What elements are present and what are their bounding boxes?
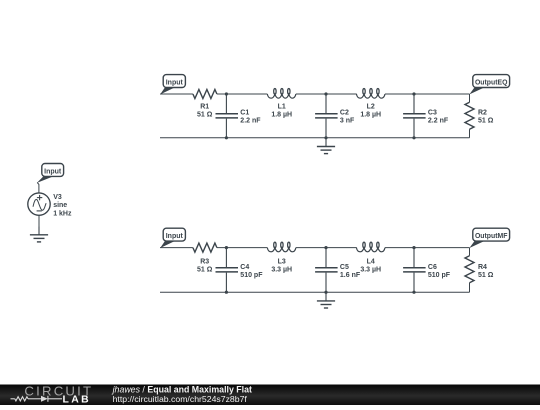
svg-text:L1: L1 (278, 104, 286, 111)
svg-text:Input: Input (44, 168, 62, 175)
svg-text:3.3 µH: 3.3 µH (271, 267, 292, 274)
wire (385, 247, 470, 249)
svg-text:R3: R3 (200, 258, 209, 265)
svg-text:R4: R4 (478, 264, 487, 271)
svg-text:jhawes / Equal and Maximally F: jhawes / Equal and Maximally Flat (112, 384, 252, 394)
svg-text:R1: R1 (200, 104, 209, 111)
svg-text:1.8 µH: 1.8 µH (271, 112, 292, 119)
node junction (414,247.6) (412, 246, 415, 249)
svg-text:2.2 nF: 2.2 nF (240, 118, 261, 125)
node junction (326,292.2) (324, 291, 327, 294)
wire (385, 93, 470, 95)
wire (160, 291, 470, 293)
svg-text:1.8 µH: 1.8 µH (360, 112, 381, 119)
svg-text:51 Ω: 51 Ω (478, 272, 494, 279)
node junction (414,292.2) (412, 291, 415, 294)
resistor R4 (469, 248, 471, 256)
capacitor C6 (413, 248, 415, 268)
capacitor C4 (225, 248, 227, 268)
svg-text:2.2 nF: 2.2 nF (428, 118, 449, 125)
node junction (226.4,247.6) (225, 246, 228, 249)
svg-text:C1: C1 (240, 109, 249, 116)
svg-text:C3: C3 (428, 109, 437, 116)
svg-text:OutputMF: OutputMF (475, 233, 508, 240)
wire (296, 247, 357, 249)
node junction (326,94) (324, 92, 327, 95)
svg-text:C4: C4 (240, 264, 249, 271)
net flag Input (source) (37, 176, 55, 183)
svg-text:sine: sine (53, 202, 67, 209)
capacitor C5 (325, 248, 327, 268)
wire (296, 93, 357, 95)
svg-text:51 Ω: 51 Ω (478, 118, 494, 125)
capacitor C1 (225, 94, 227, 113)
wire (38, 215, 40, 226)
net flag Input (160, 240, 176, 248)
svg-text:51 Ω: 51 Ω (197, 267, 213, 274)
svg-text:OutputEQ: OutputEQ (475, 79, 508, 86)
svg-text:510 pF: 510 pF (240, 272, 263, 279)
svg-text:C2: C2 (340, 109, 349, 116)
capacitor C2 (325, 94, 327, 113)
svg-text:Input: Input (166, 79, 184, 86)
inductor L1 (267, 94, 296, 98)
svg-text:L2: L2 (367, 104, 375, 111)
ground (38, 226, 40, 235)
svg-text:L4: L4 (367, 258, 375, 265)
svg-text:1 kHz: 1 kHz (53, 210, 72, 217)
wire (37, 183, 39, 193)
capacitor C3 (413, 94, 415, 113)
svg-text:C5: C5 (340, 264, 349, 271)
node junction (226.4,292.2) (225, 291, 228, 294)
node junction (414,137.8) (412, 136, 415, 139)
svg-text:V3: V3 (53, 194, 62, 201)
svg-text:3.3 µH: 3.3 µH (360, 267, 381, 274)
svg-text:510 pF: 510 pF (428, 272, 451, 279)
net flag OutputEQ (469, 87, 485, 95)
wire (160, 137, 470, 139)
node junction (326,137.8) (324, 136, 327, 139)
node junction (226.4,137.8) (225, 136, 228, 139)
resistor R2 (469, 94, 471, 102)
svg-text:51 Ω: 51 Ω (197, 112, 213, 119)
net flag Input (160, 87, 176, 95)
svg-text:http://circuitlab.com/chr524s7: http://circuitlab.com/chr524s7z8b7f (113, 394, 248, 404)
wire (217, 93, 267, 95)
svg-text:R2: R2 (478, 109, 487, 116)
svg-text:3 nF: 3 nF (340, 118, 355, 125)
inductor L4 (356, 248, 385, 252)
node junction (326,247.6) (324, 246, 327, 249)
node junction (414,94) (412, 92, 415, 95)
inductor L2 (356, 94, 385, 98)
voltage source V3 (28, 193, 50, 215)
ground (325, 138, 327, 147)
svg-text:1.6 nF: 1.6 nF (340, 272, 361, 279)
wire (160, 247, 193, 249)
node junction (226.4,94) (225, 92, 228, 95)
inductor L3 (267, 248, 296, 252)
net flag OutputMF (469, 240, 485, 248)
ground (325, 292, 327, 301)
svg-text:LAB: LAB (63, 394, 92, 405)
svg-text:C6: C6 (428, 264, 437, 271)
svg-text:Input: Input (166, 233, 184, 240)
resistor R3 (193, 243, 217, 252)
svg-text:L3: L3 (278, 258, 286, 265)
wire (160, 93, 193, 95)
resistor R1 (193, 90, 217, 99)
wire (217, 247, 267, 249)
